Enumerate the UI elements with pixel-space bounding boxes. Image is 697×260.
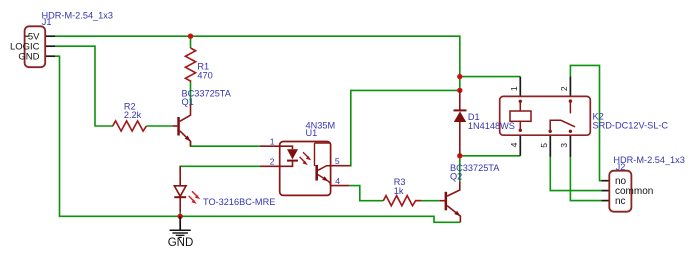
pin stub relay pin4 (519, 135, 521, 156)
node D1 cathode / U1 pin5 junction (457, 88, 462, 93)
diode D1 (454, 90, 467, 155)
svg-text:4: 4 (335, 176, 340, 186)
transistor Q2 (439, 182, 460, 222)
pin stub J1 LOGIC (45, 45, 55, 47)
op-amp U1 pin 2 lead (260, 165, 280, 167)
svg-text:TO-3216BC-MRE: TO-3216BC-MRE (203, 197, 275, 207)
wire U1 pin2 to LED anode (180, 166, 260, 171)
wire LOGIC from J1 to R2 (55, 46, 113, 126)
transistor Q1 (172, 105, 190, 147)
svg-text:SRD-DC12V-SL-C: SRD-DC12V-SL-C (593, 120, 669, 130)
op-amp U1 optocoupler 4N35M body (280, 142, 331, 196)
svg-text:J2: J2 (616, 162, 626, 172)
connector J1 body (25, 26, 46, 67)
svg-text:2.2k: 2.2k (124, 110, 142, 120)
wire node to U1 pin5 (350, 90, 460, 165)
svg-text:1: 1 (509, 86, 519, 91)
pin stub relay pin2 (569, 76, 571, 96)
svg-text:U1: U1 (306, 128, 318, 138)
pin stub relay pin5 (549, 135, 551, 157)
svg-text:GND: GND (18, 51, 39, 62)
relay K2 body (500, 96, 591, 135)
node D1 anode / relay pin4 / Q2 collector junction (457, 153, 462, 158)
svg-text:5: 5 (539, 143, 549, 148)
svg-text:470: 470 (197, 71, 212, 81)
svg-text:1k: 1k (394, 186, 404, 196)
relay K2 switch (549, 99, 576, 133)
svg-text:3: 3 (559, 143, 569, 148)
node 5V / R1 junction (188, 34, 193, 39)
svg-text:Q2: Q2 (450, 171, 462, 181)
pin stub J2 nc (602, 200, 610, 202)
LED TO-3216BC-MRE (174, 166, 186, 212)
wire from node to relay pin1 (460, 76, 521, 78)
svg-text:1: 1 (270, 137, 275, 147)
wire R3 to Q2 base (415, 200, 439, 202)
resistor R1 (185, 48, 195, 82)
node LED cathode / GND junction (178, 214, 183, 219)
svg-text:nc: nc (615, 196, 626, 207)
wire relay pin2 up and over to J2 no (570, 65, 601, 180)
wire node D1 anode to relay pin4 (460, 155, 521, 157)
relay K2 coil (510, 100, 531, 132)
wire R2 to Q1 base (146, 125, 172, 127)
wire U1 pin4 to R3 (349, 186, 383, 201)
op-amp U1 pin 1 lead (260, 145, 280, 147)
svg-text:1N4148WS: 1N4148WS (468, 121, 515, 131)
svg-text:GND: GND (168, 237, 194, 249)
pin stub J1 GND (45, 55, 55, 57)
pin stub relay pin3 (569, 135, 571, 157)
svg-text:2: 2 (270, 157, 275, 167)
svg-text:4: 4 (509, 142, 519, 147)
svg-text:J1: J1 (42, 17, 52, 27)
wire relay pin5 to J2 common (550, 157, 601, 191)
ground (170, 216, 191, 237)
LED light arrows (189, 191, 200, 204)
resistor R3 (383, 196, 421, 206)
svg-text:5: 5 (335, 156, 340, 166)
svg-text:HDR-M-2.54_1x3: HDR-M-2.54_1x3 (42, 11, 113, 21)
wire R1 top lead (190, 36, 192, 48)
wire R1 bottom to Q1 collector (190, 82, 192, 105)
op-amp U1 light arrows (300, 152, 312, 165)
wire relay pin3 to J2 nc (570, 157, 601, 201)
wire Q2 collector to node (459, 156, 461, 182)
pin stub J1 5V (45, 35, 55, 37)
pin stub J2 no (602, 180, 610, 182)
wire GND from J1 down and along bottom to Q2 emitter (55, 56, 460, 222)
pin stub relay pin1 (519, 77, 521, 97)
wire 5V top rail from J1 pin1 to D1 column (55, 36, 460, 76)
connector J2 body (609, 171, 631, 212)
node 5V / relay pin1 junction (457, 74, 462, 79)
op-amp U1 pin 5 lead (331, 165, 351, 167)
op-amp U1 internal phototransistor (315, 143, 331, 186)
op-amp U1 internal LED (280, 146, 298, 166)
wire segment between top nodes on D1 column (459, 77, 461, 91)
wire Q1 emitter to U1 pin1 (191, 142, 260, 147)
svg-text:Q1: Q1 (182, 97, 194, 107)
pin stub J2 common (602, 190, 610, 192)
connector J1 inner pin mark (25, 35, 28, 37)
resistor R2 (113, 121, 147, 131)
op-amp U1 pin 4 lead (331, 185, 350, 187)
svg-text:2: 2 (559, 86, 569, 91)
wire LED cathode to GND junction (179, 212, 181, 216)
